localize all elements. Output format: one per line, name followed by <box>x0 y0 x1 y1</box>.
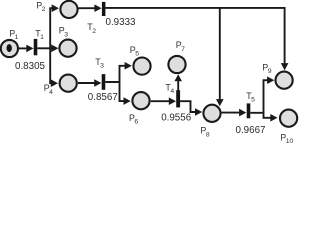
label T4 <box>165 82 174 95</box>
place P3 <box>59 40 76 57</box>
label P1 <box>9 28 18 41</box>
wire P2 to T2 <box>78 4 101 12</box>
transition T2 <box>102 2 106 16</box>
label T3 <box>95 57 104 70</box>
value 0.9667 (T5) <box>236 125 266 136</box>
wire P6 to T4 <box>151 97 176 105</box>
label P2 <box>36 0 45 13</box>
place P10 <box>280 110 297 127</box>
place P5 <box>133 58 150 75</box>
label T1 <box>35 29 44 42</box>
wire T3 to P6 <box>120 82 131 105</box>
value 0.9333 (T2) <box>106 17 137 28</box>
label P5 <box>130 45 139 58</box>
label P9 <box>262 62 271 75</box>
wire P1 to T1 <box>19 45 34 53</box>
wire T1 to P4 (down branch) <box>50 48 58 87</box>
svg-text:0.9667: 0.9667 <box>236 125 266 136</box>
value 0.8567 (T3) <box>88 92 118 103</box>
wire T4 to P8 (jog down) <box>180 101 202 116</box>
wire P8 to T5 <box>222 109 247 117</box>
label P3 <box>59 26 68 39</box>
transition T3 <box>102 74 106 90</box>
wire T1 to P2 (up branch) <box>50 4 59 48</box>
token in P1 <box>7 44 12 52</box>
label P8 <box>200 126 209 139</box>
label P6 <box>129 113 138 126</box>
place P4 <box>60 75 77 92</box>
wire P4 to T3 <box>78 79 102 87</box>
transition T5 <box>247 103 251 118</box>
svg-text:0.9333: 0.9333 <box>106 17 137 28</box>
wire T3 to P5 <box>105 62 131 82</box>
place P1 <box>1 40 18 57</box>
label P7 <box>176 40 185 53</box>
label P4 <box>44 83 53 96</box>
label P10 <box>280 132 293 145</box>
svg-text:0.9556: 0.9556 <box>161 113 192 124</box>
wire T1 to P3 <box>37 45 58 53</box>
transition T4 <box>176 90 180 107</box>
svg-text:0.8305: 0.8305 <box>15 61 46 72</box>
label T2 <box>87 22 96 35</box>
label T5 <box>246 91 255 104</box>
wire T5 to P9 (up branch) <box>250 76 274 112</box>
wire T2 to P9 (long top run, down at right edge) <box>105 8 288 71</box>
value 0.8305 (T1) <box>15 61 46 72</box>
value 0.9556 (T4) <box>161 113 192 124</box>
transition T1 <box>34 39 38 55</box>
place P6 <box>132 92 149 109</box>
place P8 <box>203 105 220 122</box>
place P7 <box>168 56 185 73</box>
wire T5 to P10 (jog down) <box>264 113 278 122</box>
place P2 <box>60 1 77 18</box>
wire T4 to P7 <box>174 74 182 101</box>
place P9 <box>276 72 293 89</box>
svg-text:0.8567: 0.8567 <box>88 92 118 103</box>
wire T2 to P8 (branch down at x=220) <box>216 8 224 106</box>
